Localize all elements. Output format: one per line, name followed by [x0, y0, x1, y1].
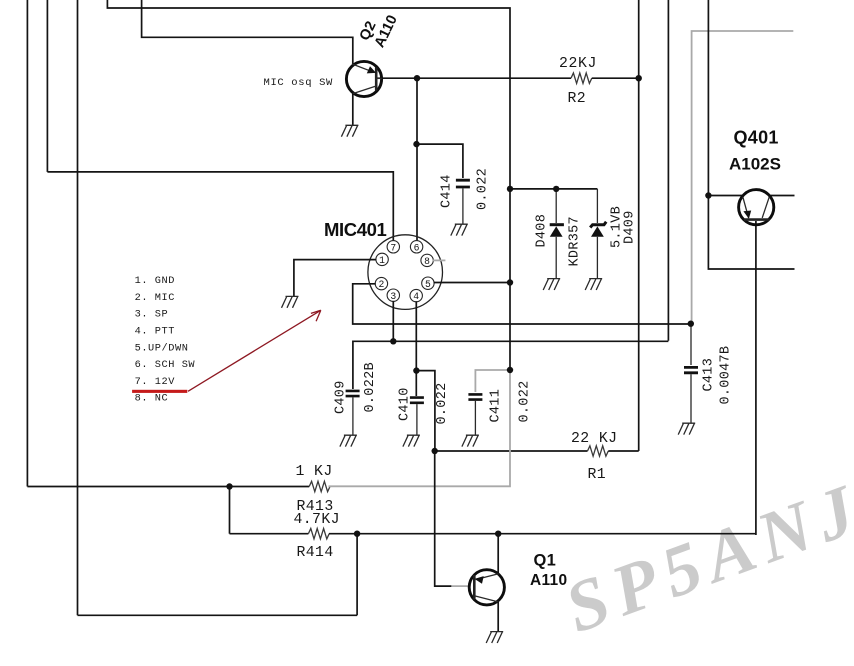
pin 5	[422, 277, 434, 290]
wire left vertical V3	[77, 0, 79, 615]
junction dot Q1 collector node	[495, 531, 501, 537]
wire base rail y533	[230, 533, 309, 535]
svg-text:MIC osq SW: MIC osq SW	[264, 77, 334, 89]
wire V26 down to bottom rail	[356, 534, 358, 616]
svg-text:6: 6	[414, 242, 420, 253]
svg-text:5.UP/DWN: 5.UP/DWN	[135, 342, 189, 354]
wire gray net top right	[692, 31, 794, 324]
pin 4	[410, 289, 422, 302]
wire C410 branch to Q1 base	[435, 451, 452, 586]
transistor Q1	[469, 570, 504, 605]
svg-text:0.0047B: 0.0047B	[719, 346, 734, 405]
wire Q1 emitter to ground	[497, 602, 499, 632]
svg-text:0.022B: 0.022B	[363, 362, 378, 412]
wire C409 rail y341	[353, 341, 669, 389]
svg-text:A110: A110	[530, 572, 567, 589]
wire gray R413 to 12V net	[329, 370, 511, 486]
svg-text:22 KJ: 22 KJ	[571, 431, 617, 447]
ground below C409	[340, 435, 357, 446]
svg-text:A102S: A102S	[729, 155, 781, 174]
wire right vertical V12 bracket	[708, 0, 794, 269]
transistor Q2	[346, 61, 381, 96]
svg-text:7: 7	[390, 242, 396, 253]
pin 2	[375, 277, 387, 290]
svg-text:C409: C409	[334, 380, 349, 414]
pin 3	[387, 289, 399, 302]
wire pin5 to node	[434, 282, 510, 284]
wire R2 right	[592, 77, 639, 79]
wire top corner V4	[107, 0, 510, 370]
svg-text:1. GND: 1. GND	[135, 275, 175, 287]
junction dot 12V gray node	[507, 367, 513, 373]
wire Q2 base to R2	[376, 77, 571, 79]
ground below Q2	[341, 125, 358, 136]
wire C410 branch right down	[416, 371, 435, 451]
capacitor C413	[684, 324, 698, 424]
wire R1 rail y451	[435, 450, 588, 452]
junction dot diode rail left	[507, 186, 513, 192]
svg-text:5: 5	[425, 279, 431, 290]
resistor R2	[571, 73, 592, 83]
wire Q401 collector right	[770, 195, 795, 197]
pin 1	[376, 253, 388, 266]
wire C414 branch	[417, 144, 463, 178]
junction dot R2 right node	[636, 75, 642, 81]
capacitor C409	[346, 391, 360, 435]
svg-text:C414: C414	[440, 174, 455, 208]
svg-text:0.022: 0.022	[435, 382, 450, 424]
svg-text:22KJ: 22KJ	[559, 56, 597, 72]
junction dot D408 top	[553, 186, 559, 192]
junction dot gray net y323	[688, 321, 694, 327]
svg-text:4: 4	[413, 291, 419, 302]
transistor Q401	[739, 190, 774, 225]
wire bottom rail y615	[78, 614, 358, 616]
wire V25 down from R413 rail	[229, 487, 231, 534]
red underline 12V	[132, 390, 187, 393]
resistor R1	[588, 446, 609, 456]
svg-text:D408: D408	[535, 214, 550, 248]
diode D408	[550, 189, 564, 279]
wire Q401 base down	[755, 221, 757, 535]
junction dot R1 left node	[432, 448, 438, 454]
svg-text:C410: C410	[398, 387, 413, 421]
svg-text:Q401: Q401	[734, 128, 779, 148]
junction dot R413 left node	[226, 483, 232, 489]
junction dot rail x357	[354, 531, 360, 537]
svg-text:R2: R2	[568, 91, 587, 107]
ground below Q1	[486, 632, 503, 643]
junction dot pin3 node	[390, 338, 396, 344]
svg-text:R414: R414	[297, 545, 334, 561]
wire Q1 base stub gray	[451, 585, 468, 587]
wire Q1 collector down	[497, 534, 499, 574]
svg-text:KDR357: KDR357	[568, 216, 583, 266]
svg-text:0.022: 0.022	[518, 380, 533, 422]
resistor R413	[309, 481, 330, 491]
pin 8	[421, 254, 433, 267]
connector MIC401 outline	[368, 235, 443, 310]
zener diode D409	[590, 189, 606, 279]
wire pin6 vertical	[416, 78, 418, 241]
wire R1 right to V9	[608, 450, 638, 452]
svg-text:1: 1	[379, 255, 385, 266]
wire diode rail y189	[510, 188, 597, 190]
ground at pin1	[282, 296, 299, 307]
svg-text:6. SCH SW: 6. SCH SW	[135, 359, 196, 371]
junction dot Q2 base node	[414, 75, 420, 81]
capacitor C411 gray feed	[475, 370, 510, 392]
svg-text:4.7KJ: 4.7KJ	[294, 512, 340, 528]
wire y172 to pin7	[47, 172, 393, 241]
svg-text:7. 12V: 7. 12V	[135, 376, 176, 388]
svg-text:C413: C413	[702, 358, 717, 392]
ground below C413	[678, 423, 695, 434]
wire top corner V5 to Q2 emitter	[142, 0, 353, 66]
svg-text:2. MIC: 2. MIC	[135, 292, 175, 304]
capacitor C414	[456, 180, 470, 224]
svg-text:MIC401: MIC401	[324, 219, 386, 240]
svg-text:2: 2	[378, 279, 384, 290]
wire pin2 net to gray node	[353, 284, 691, 324]
svg-text:3. SP: 3. SP	[135, 309, 169, 321]
svg-text:4. PTT: 4. PTT	[135, 326, 175, 338]
svg-text:8. NC: 8. NC	[135, 393, 169, 405]
svg-text:3: 3	[390, 291, 396, 302]
ground below C411	[462, 435, 479, 446]
wire Q2 collector to ground	[352, 93, 354, 126]
ground below C414	[451, 224, 468, 235]
wire pin4 down to C410	[415, 301, 417, 396]
svg-text:C411: C411	[489, 389, 504, 423]
wire pin8 gray stub	[433, 259, 446, 261]
ground below C410	[403, 435, 420, 446]
capacitor C411	[468, 394, 482, 435]
wire R413 rail y486	[27, 486, 309, 488]
svg-text:D409: D409	[623, 210, 638, 244]
svg-text:SP5ANJ: SP5ANJ	[555, 467, 854, 648]
wire left vertical V2	[46, 0, 48, 172]
junction dot pin5 node	[507, 279, 513, 285]
wire pin1 to ground	[294, 260, 377, 297]
pin 6	[410, 241, 422, 254]
wire left vertical V1	[26, 0, 28, 487]
ground below D409	[585, 279, 602, 290]
ground below D408	[543, 279, 560, 290]
wire Q401 emitter left	[708, 195, 742, 197]
wire right vertical V10	[667, 0, 669, 341]
resistor R414	[308, 529, 329, 539]
svg-text:R1: R1	[588, 467, 607, 483]
wire right vertical V9	[638, 0, 640, 451]
pin list text	[135, 275, 196, 405]
svg-text:8: 8	[424, 256, 430, 267]
junction dot C414 node	[413, 141, 419, 147]
wire base rail y533 right	[329, 533, 756, 535]
wire pin3 down	[392, 301, 394, 341]
svg-text:Q1: Q1	[534, 552, 557, 570]
junction dot Q401 emitter node	[705, 192, 711, 198]
junction dot C410 node	[413, 367, 419, 373]
svg-text:1 KJ: 1 KJ	[296, 464, 333, 480]
red annotation arrow	[188, 310, 321, 391]
capacitor C410	[410, 398, 424, 435]
svg-text:0.022: 0.022	[476, 168, 491, 210]
pin 7	[387, 241, 399, 254]
